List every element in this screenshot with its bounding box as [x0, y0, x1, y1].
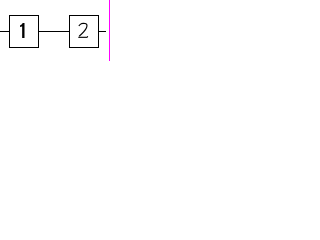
- label 1: [20, 23, 24, 38]
- label 2: [78, 23, 87, 37]
- boundary line: [109, 0, 110, 61]
- block 1: [10, 16, 39, 48]
- wire: [38, 31, 70, 32]
- block 2: [70, 16, 99, 48]
- wire: [98, 31, 106, 32]
- wire: [0, 31, 10, 32]
